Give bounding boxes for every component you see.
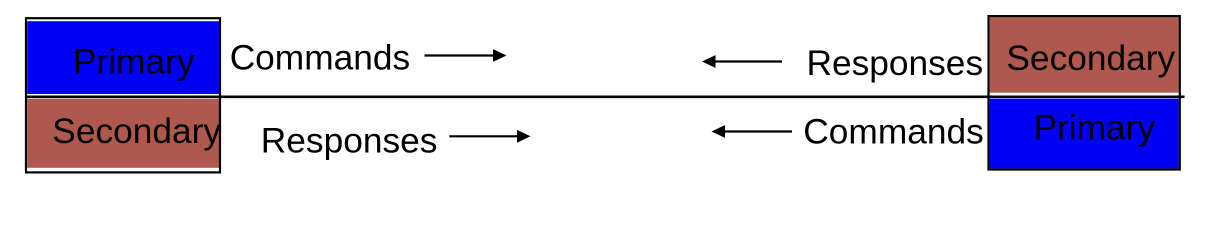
svg-text:Commands: Commands (230, 39, 410, 78)
right station border (989, 16, 1180, 169)
link line (25, 95, 1185, 98)
left station Primary cell (blue) (27, 21, 219, 94)
left station Secondary cell (brown) (27, 99, 219, 168)
svg-text:Primary: Primary (73, 43, 195, 82)
arrow right (bottom, responses) (449, 130, 530, 143)
right station Secondary cell (brown) (990, 17, 1179, 93)
svg-text:Responses: Responses (261, 122, 438, 161)
svg-text:Secondary: Secondary (1006, 39, 1175, 78)
arrow left (bottom, commands) (712, 125, 793, 138)
arrow left (top, responses) (702, 55, 782, 68)
right station Primary cell (blue) (990, 99, 1179, 169)
arrow right (top, commands) (425, 49, 507, 62)
svg-text:Primary: Primary (1034, 109, 1156, 148)
svg-text:Responses: Responses (807, 44, 984, 83)
svg-text:Commands: Commands (803, 113, 983, 152)
left station border (26, 18, 220, 172)
svg-text:Secondary: Secondary (52, 112, 221, 151)
